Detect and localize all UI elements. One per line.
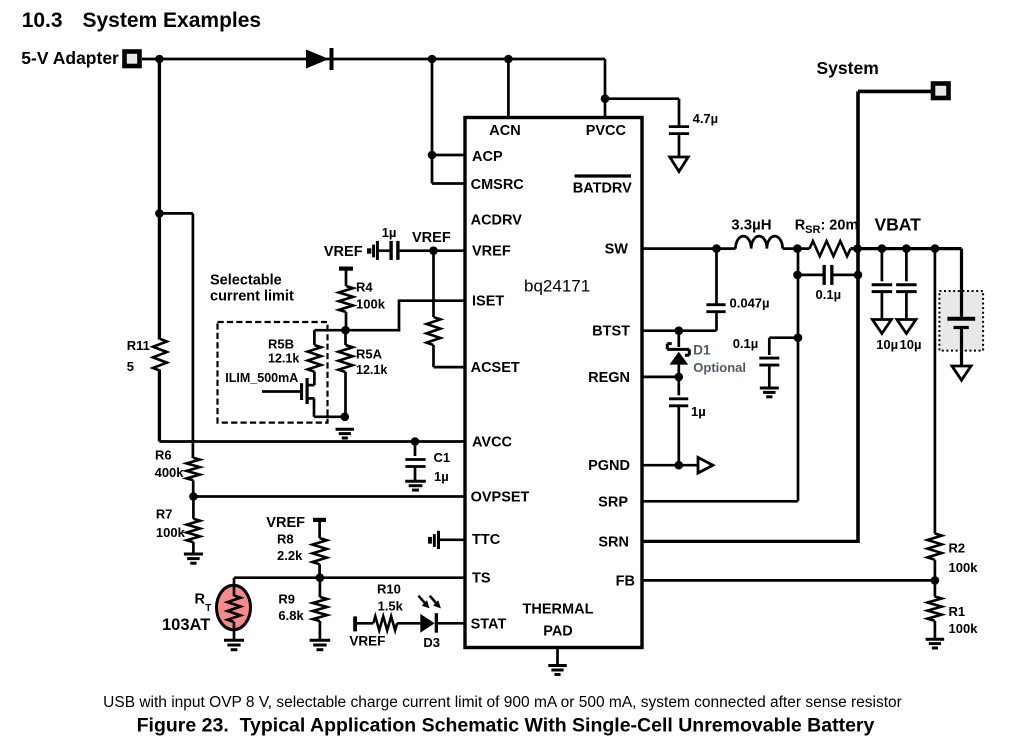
svg-text:VREF: VREF: [266, 515, 305, 531]
svg-text:OVPSET: OVPSET: [471, 490, 530, 506]
svg-text:VREF: VREF: [472, 244, 511, 260]
svg-text:12.1k: 12.1k: [356, 363, 387, 377]
svg-text:R: R: [195, 592, 206, 608]
svg-text:R10: R10: [377, 582, 401, 597]
svg-text:ACDRV: ACDRV: [471, 213, 523, 229]
svg-text:SRN: SRN: [598, 534, 629, 550]
svg-text:VBAT: VBAT: [875, 215, 922, 235]
svg-text:1µ: 1µ: [691, 404, 706, 419]
svg-text:USB with input OVP 8 V, select: USB with input OVP 8 V, selectable charg…: [103, 694, 902, 711]
svg-text:3.3µH: 3.3µH: [731, 216, 771, 233]
svg-text:VREF: VREF: [324, 244, 363, 260]
svg-text:R6: R6: [155, 448, 172, 463]
svg-text:ISET: ISET: [472, 294, 504, 310]
svg-text:VREF: VREF: [349, 634, 385, 649]
svg-text:103AT: 103AT: [162, 616, 210, 634]
svg-text:System: System: [817, 58, 879, 78]
svg-text:1.5k: 1.5k: [378, 599, 404, 614]
svg-text:10µ: 10µ: [900, 337, 922, 352]
svg-text:2.2k: 2.2k: [277, 548, 303, 563]
svg-text:SRP: SRP: [598, 494, 628, 510]
svg-text:0.1µ: 0.1µ: [816, 287, 842, 302]
svg-text:100k: 100k: [949, 621, 979, 636]
svg-text:VREF: VREF: [412, 230, 451, 246]
svg-text:Figure 23. Typical Applicatio: Figure 23. Typical Application Schematic…: [137, 715, 875, 737]
svg-text:FB: FB: [616, 573, 635, 589]
svg-text:R11: R11: [127, 338, 150, 353]
svg-text:4.7µ: 4.7µ: [693, 111, 719, 126]
svg-text:10µ: 10µ: [876, 337, 898, 352]
svg-text:5: 5: [127, 359, 134, 374]
svg-text:ILIM_500mA: ILIM_500mA: [225, 371, 298, 385]
svg-text:R4: R4: [356, 280, 373, 295]
svg-text:6.8k: 6.8k: [278, 608, 304, 623]
svg-text:PAD: PAD: [543, 624, 573, 640]
svg-text:10.3: 10.3: [22, 9, 63, 32]
svg-text:ACN: ACN: [489, 123, 520, 139]
svg-text:BTST: BTST: [592, 324, 630, 340]
svg-text:REGN: REGN: [588, 370, 630, 386]
svg-text:R8: R8: [277, 532, 294, 547]
svg-text:R1: R1: [949, 604, 966, 619]
svg-text:Selectable: Selectable: [210, 273, 282, 289]
svg-text:TTC: TTC: [472, 532, 501, 548]
svg-text:100k: 100k: [356, 297, 386, 312]
svg-text:RSR: 20m: RSR: 20m: [795, 218, 859, 237]
svg-text:SW: SW: [605, 242, 629, 258]
svg-text:T: T: [205, 603, 211, 614]
svg-text:5-V Adapter: 5-V Adapter: [21, 48, 119, 68]
svg-text:100k: 100k: [949, 560, 979, 575]
svg-text:R7: R7: [156, 507, 173, 522]
svg-text:ACSET: ACSET: [471, 360, 520, 376]
svg-text:R5A: R5A: [356, 347, 383, 362]
svg-text:PGND: PGND: [588, 458, 630, 474]
svg-text:Optional: Optional: [693, 360, 746, 375]
svg-text:AVCC: AVCC: [472, 435, 513, 451]
svg-text:1µ: 1µ: [434, 469, 449, 484]
svg-text:CMSRC: CMSRC: [471, 177, 525, 193]
svg-text:400k: 400k: [155, 465, 185, 480]
svg-text:ACP: ACP: [472, 149, 503, 165]
svg-text:TS: TS: [472, 571, 491, 587]
svg-text:PVCC: PVCC: [586, 123, 627, 139]
svg-text:R2: R2: [949, 541, 966, 556]
svg-text:STAT: STAT: [471, 616, 507, 632]
svg-text:12.1k: 12.1k: [268, 352, 299, 366]
svg-text:0.047µ: 0.047µ: [730, 296, 770, 311]
svg-text:System Examples: System Examples: [83, 9, 262, 32]
svg-text:100k: 100k: [156, 525, 186, 540]
svg-text:1µ: 1µ: [382, 225, 397, 240]
svg-text:bq24171: bq24171: [524, 277, 590, 296]
svg-text:R9: R9: [278, 592, 295, 607]
svg-text:D1: D1: [693, 343, 711, 358]
svg-text:current limit: current limit: [210, 289, 294, 305]
svg-text:BATDRV: BATDRV: [573, 181, 632, 197]
svg-text:0.1µ: 0.1µ: [733, 336, 759, 351]
svg-text:D3: D3: [423, 635, 440, 650]
svg-text:C1: C1: [434, 450, 451, 465]
svg-text:R5B: R5B: [268, 337, 294, 352]
svg-text:THERMAL: THERMAL: [523, 602, 594, 618]
